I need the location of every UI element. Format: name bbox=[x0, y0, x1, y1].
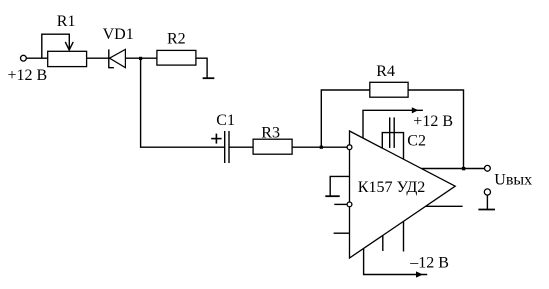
V+ arrowhead bbox=[412, 107, 419, 113]
ground bar (R2) bbox=[203, 77, 215, 79]
bottom dangling pin stub B bbox=[403, 222, 405, 252]
V+ power pin wire bbox=[363, 110, 423, 138]
resistor R3 bbox=[253, 139, 292, 154]
op-amp U1 triangle bbox=[350, 131, 456, 258]
svg-text:–12 В: –12 В bbox=[409, 254, 449, 271]
R1 arrowhead bbox=[65, 42, 73, 50]
svg-text:С2: С2 bbox=[407, 133, 426, 150]
wire R2 to ground bbox=[196, 58, 207, 78]
wire R1 to VD1 bbox=[87, 57, 109, 59]
C1 plus sign bbox=[211, 138, 221, 140]
wire VD1 to R2 bbox=[125, 57, 156, 59]
wire R4 right down to output bbox=[408, 90, 463, 169]
svg-text:VD1: VD1 bbox=[103, 26, 134, 43]
svg-text:R1: R1 bbox=[57, 13, 76, 30]
resistor R1 bbox=[48, 51, 87, 66]
node A junction dot bbox=[320, 146, 323, 149]
bottom output-side pin bbox=[426, 205, 463, 207]
capacitor C2 plates bbox=[389, 117, 391, 147]
resistor R4 bbox=[370, 82, 408, 97]
ground bar (output) bbox=[478, 209, 495, 211]
C2 correction pins box bbox=[382, 133, 403, 160]
node junction dot bbox=[139, 57, 142, 60]
wire C1 to R3 bbox=[229, 146, 253, 148]
R1 wiper arrow wire bbox=[42, 34, 70, 58]
wire node down and to C1 bbox=[141, 58, 225, 147]
wire terminal to ground bbox=[486, 195, 488, 209]
dangling pin with bubble bbox=[334, 203, 347, 205]
svg-text:R3: R3 bbox=[261, 124, 280, 141]
ground bar (input 2) bbox=[325, 195, 339, 197]
input 2 wire to ground bbox=[330, 176, 349, 196]
svg-text:R4: R4 bbox=[376, 63, 395, 80]
wire R3 to op-amp input bbox=[292, 146, 347, 148]
diode VD1 triangle bbox=[110, 49, 126, 67]
dangling pin stub bbox=[334, 232, 350, 234]
svg-text:C1: C1 bbox=[216, 112, 235, 129]
svg-text:Uвых: Uвых bbox=[494, 172, 532, 189]
input terminal bbox=[21, 55, 27, 61]
svg-text:+12 В: +12 В bbox=[413, 113, 453, 130]
output pin from top edge bbox=[422, 168, 485, 170]
svg-text:+12 В: +12 В bbox=[8, 67, 48, 84]
inverting input bubble bbox=[347, 145, 352, 150]
V- arrowhead bbox=[416, 271, 423, 277]
resistor R2 bbox=[157, 50, 196, 65]
wire input to R1 bbox=[26, 57, 48, 59]
bottom dangling pin stub A bbox=[382, 235, 384, 251]
output terminal bbox=[485, 165, 491, 171]
lower output terminal bbox=[484, 189, 490, 195]
capacitor C1 plates bbox=[224, 131, 226, 163]
feedback wire up to R4 bbox=[321, 90, 370, 147]
svg-text:К157 УД2: К157 УД2 bbox=[358, 179, 426, 196]
svg-text:R2: R2 bbox=[167, 31, 186, 48]
V- power pin wire bbox=[364, 248, 428, 274]
diode VD1 (zener) cathode bar bbox=[109, 49, 114, 67]
output junction dot bbox=[462, 167, 465, 170]
